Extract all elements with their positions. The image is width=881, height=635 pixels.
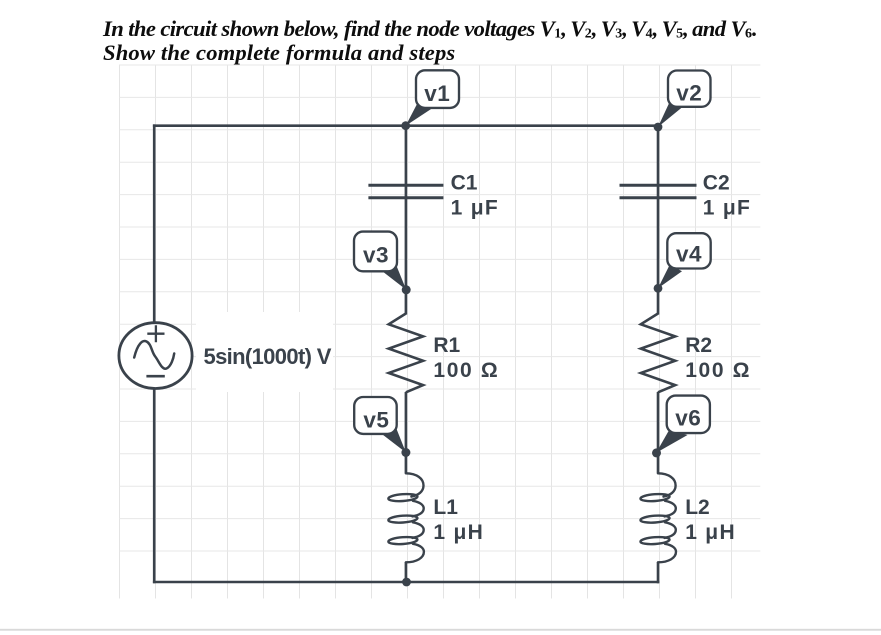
svg-text:v6: v6 bbox=[675, 406, 701, 431]
wire: L2 bottom to bottom rail corner bbox=[657, 562, 660, 583]
node label v4 pointer bbox=[658, 265, 682, 289]
svg-text:R1: R1 bbox=[433, 334, 460, 357]
inductor L1 coil arcs bbox=[406, 473, 424, 562]
svg-text:v1: v1 bbox=[424, 81, 450, 106]
node v5 junction dot bbox=[401, 448, 410, 457]
label: source value background bbox=[196, 312, 333, 392]
resistor R2 zigzag bbox=[641, 314, 675, 393]
problem statement title bbox=[103, 17, 757, 64]
svg-text:100 Ω: 100 Ω bbox=[685, 359, 751, 382]
wire: L1 bottom to bottom rail bbox=[405, 562, 408, 582]
wire: left riser (top rail down to source +) bbox=[153, 124, 156, 322]
wire: R2 bottom to L2 top (through v6) bbox=[657, 392, 660, 474]
svg-text:C2: C2 bbox=[703, 172, 730, 195]
node: bottom rail junction dot bbox=[402, 578, 411, 587]
wire: v2 down through C2 to R2 top bbox=[657, 126, 660, 315]
node label v3 box bbox=[354, 232, 397, 272]
wire: bottom rail bbox=[153, 581, 659, 584]
node label v5 box bbox=[354, 397, 397, 434]
svg-text:5sin(1000t) V: 5sin(1000t) V bbox=[204, 344, 332, 369]
node v3 junction dot bbox=[402, 285, 411, 294]
node v4 junction dot bbox=[654, 284, 663, 293]
inductor L2 coil loops bbox=[640, 493, 670, 502]
node label v1 pointer bbox=[406, 102, 432, 126]
svg-text:100 Ω: 100 Ω bbox=[433, 359, 499, 382]
node label v5 pointer bbox=[382, 427, 406, 452]
voltage source - polarity mark bbox=[146, 375, 164, 378]
node v6 junction dot bbox=[652, 448, 661, 457]
voltage source VS1 circle bbox=[119, 323, 192, 389]
svg-text:v5: v5 bbox=[363, 408, 389, 433]
wire: left return (source - down to bottom rail) bbox=[153, 390, 156, 584]
bottom separator line bbox=[0, 629, 881, 631]
node label v6 pointer bbox=[656, 430, 687, 453]
resistor R1 zigzag bbox=[389, 314, 423, 393]
node label v6 box bbox=[667, 396, 710, 434]
svg-text:v4: v4 bbox=[676, 242, 702, 267]
wire: v1 down through C1 to R1 top bbox=[405, 126, 408, 315]
svg-text:v3: v3 bbox=[363, 243, 389, 268]
svg-text:1 μF: 1 μF bbox=[451, 197, 499, 220]
svg-text:L1: L1 bbox=[433, 496, 458, 519]
node label v1 box bbox=[416, 70, 459, 108]
svg-text:C1: C1 bbox=[451, 172, 478, 195]
svg-text:L2: L2 bbox=[685, 496, 710, 519]
capacitor C2 bbox=[620, 185, 697, 198]
node label v3 pointer bbox=[382, 263, 407, 289]
node label v4 box bbox=[667, 233, 710, 268]
node label v2 box bbox=[668, 71, 711, 107]
svg-text:1 μH: 1 μH bbox=[685, 521, 736, 544]
node label v2 pointer bbox=[658, 101, 683, 127]
capacitor C1 bbox=[368, 185, 443, 198]
svg-text:1 μF: 1 μF bbox=[703, 197, 751, 220]
wire: top rail v1 to v2 bbox=[153, 124, 659, 127]
svg-text:1 μH: 1 μH bbox=[433, 521, 484, 544]
inductor L1 coil loops bbox=[388, 493, 418, 502]
wire: R1 bottom to L1 top (through v5) bbox=[405, 392, 408, 474]
inductor L2 coil arcs bbox=[658, 473, 676, 562]
node v2 junction dot bbox=[654, 123, 663, 132]
voltage source + polarity mark bbox=[147, 325, 164, 342]
voltage source VS1 sine wave bbox=[134, 341, 174, 369]
svg-text:v2: v2 bbox=[676, 81, 702, 106]
svg-text:R2: R2 bbox=[685, 334, 712, 357]
node v1 junction dot bbox=[401, 121, 410, 130]
